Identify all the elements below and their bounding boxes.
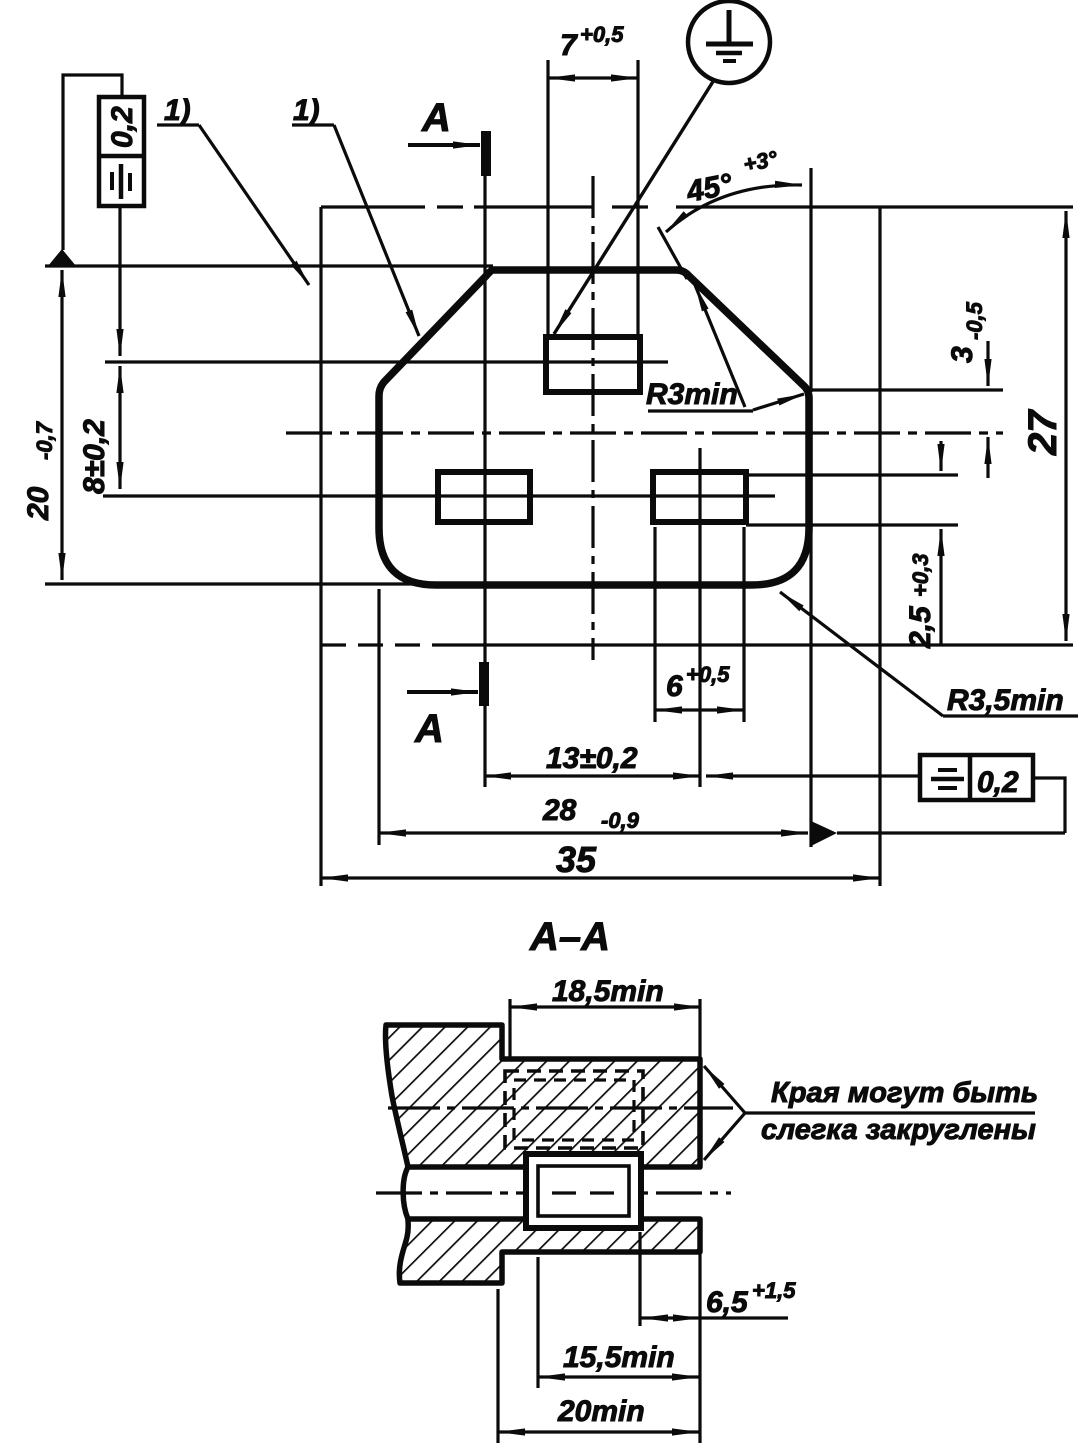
svg-text:27: 27	[1021, 409, 1065, 456]
dimension 27 (far right)	[1064, 211, 1067, 641]
svg-text:R3min: R3min	[646, 378, 738, 411]
svg-text:-0,5: -0,5	[962, 301, 987, 340]
dimension 20-0,7	[60, 270, 63, 580]
svg-text:A: A	[421, 96, 451, 140]
svg-text:7: 7	[560, 29, 578, 62]
dimension 3-0,5 (right)	[812, 388, 1003, 391]
dimension 6+0,5	[653, 527, 656, 722]
svg-text:1): 1)	[164, 94, 191, 127]
note leader (edges may be rounded)	[704, 1066, 745, 1113]
outer mating-face box (35 x 27)	[321, 207, 1073, 886]
svg-text:слегка закруглены: слегка закруглены	[761, 1114, 1036, 1146]
earthing symbol circle	[688, 1, 770, 83]
horizontal centreline of connector	[286, 431, 1003, 434]
svg-text:-0,9: -0,9	[601, 808, 640, 833]
dimension 45deg +3	[809, 168, 812, 392]
svg-text:13±0,2: 13±0,2	[546, 742, 638, 775]
dimension 7+0,5	[546, 60, 549, 337]
ground contact hole (top centre)	[546, 337, 640, 392]
svg-text:+0,5: +0,5	[686, 662, 730, 687]
vertical centreline of connector	[591, 176, 594, 660]
svg-text:Края могут быть: Края могут быть	[771, 1077, 1038, 1109]
left pin hole	[438, 472, 530, 522]
section upper body (hatched)	[385, 1025, 700, 1167]
svg-text:A–A: A–A	[529, 915, 610, 959]
svg-text:35: 35	[556, 839, 597, 880]
tolerance frame bottom-right (symmetry 0,2)	[920, 755, 1033, 800]
top edge extension line	[45, 264, 493, 267]
tolerance frame top-left (symmetry 0,2)	[99, 97, 144, 206]
hidden ground-pin cavity (dashed)	[505, 1071, 643, 1148]
svg-text:3: 3	[946, 346, 979, 363]
leader from right frame to 13 dimension	[706, 774, 920, 777]
dimension 15,5min	[536, 1257, 539, 1388]
svg-text:0,2: 0,2	[977, 766, 1019, 799]
section marker A top	[481, 131, 491, 176]
svg-text:R3,5min: R3,5min	[947, 684, 1064, 717]
svg-text:8±0,2: 8±0,2	[78, 419, 111, 494]
svg-text:+0,5: +0,5	[580, 22, 624, 47]
svg-text:15,5min: 15,5min	[563, 1341, 675, 1374]
earthing symbol leader	[554, 80, 714, 334]
ground contact level line	[105, 360, 668, 363]
right face extension line	[698, 999, 701, 1059]
bottom edge extension line	[45, 582, 425, 585]
dimension 28-0,9	[377, 589, 380, 845]
pin opening box	[526, 1154, 641, 1228]
dimension 18,5min	[508, 999, 511, 1057]
frame leader to datum (top)	[63, 75, 122, 250]
svg-text:0,2: 0,2	[106, 106, 139, 148]
svg-text:+0,3: +0,3	[908, 554, 933, 597]
connector body outline	[379, 270, 809, 585]
pin-hole axis line	[103, 494, 775, 497]
svg-text:+1,5: +1,5	[752, 1278, 796, 1303]
svg-text:6,5: 6,5	[706, 1286, 749, 1319]
dimension 35	[321, 876, 880, 879]
svg-text:20min: 20min	[557, 1395, 645, 1428]
svg-text:2,5: 2,5	[904, 605, 937, 649]
dimension 8±0,2	[118, 366, 121, 489]
main axis of section	[376, 1191, 731, 1194]
svg-text:1): 1)	[293, 94, 320, 127]
frame leader to toleranced line	[118, 206, 121, 356]
svg-text:6: 6	[666, 670, 683, 703]
wavy break edge between bodies	[403, 1167, 408, 1219]
dimension 20min	[496, 1289, 499, 1443]
section lower body (hatched)	[399, 1219, 700, 1283]
dimension 13±0,2	[698, 448, 701, 787]
svg-text:28: 28	[542, 794, 577, 827]
section marker A bottom	[479, 662, 489, 706]
dimension 2,5+0,3 (right)	[746, 473, 958, 476]
svg-text:-0,7: -0,7	[32, 420, 57, 460]
right pin hole	[653, 472, 746, 522]
svg-text:A: A	[414, 707, 444, 751]
ground cavity axis	[388, 1106, 733, 1109]
dimension 6,5+1,5	[638, 1232, 641, 1326]
svg-text:18,5min: 18,5min	[552, 975, 664, 1008]
section line A-A vertical	[483, 176, 486, 787]
svg-text:20: 20	[22, 486, 55, 521]
